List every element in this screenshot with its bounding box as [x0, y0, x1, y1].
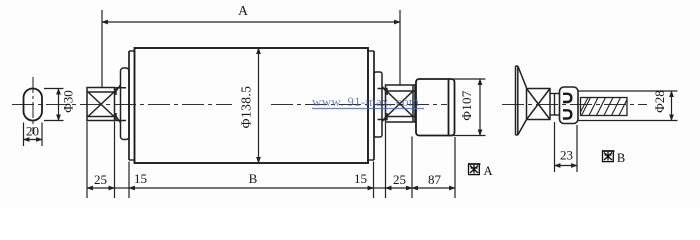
- svg-text:Φ30: Φ30: [60, 90, 75, 113]
- svg-text:23: 23: [560, 148, 573, 163]
- svg-text:www. 91-max. com: www. 91-max. com: [312, 94, 419, 109]
- svg-text:25: 25: [94, 172, 107, 187]
- svg-text:A: A: [483, 164, 492, 178]
- svg-text:20: 20: [26, 124, 39, 139]
- svg-text:15: 15: [354, 171, 367, 186]
- svg-text:15: 15: [134, 171, 147, 186]
- svg-text:25: 25: [393, 172, 406, 187]
- svg-text:B: B: [249, 171, 258, 186]
- svg-text:B: B: [617, 151, 625, 165]
- svg-text:Φ28: Φ28: [652, 90, 667, 113]
- svg-text:87: 87: [428, 172, 442, 187]
- svg-text:Φ138.5: Φ138.5: [239, 86, 254, 129]
- svg-text:Φ107: Φ107: [459, 90, 474, 120]
- svg-text:A: A: [238, 3, 248, 18]
